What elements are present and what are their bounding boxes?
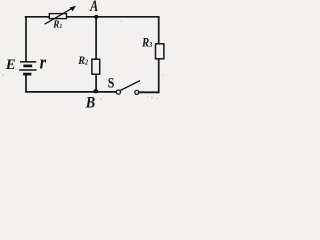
- svg-text:A: A: [89, 0, 98, 16]
- svg-text:r: r: [40, 52, 47, 73]
- wire right vertical: [158, 16, 160, 93]
- switch S blade: [121, 81, 141, 91]
- wire left top segment: [25, 16, 27, 62]
- node A junction dot: [94, 15, 98, 19]
- wire bottom right (switch to corner): [139, 91, 160, 93]
- wire middle branch lower (R2 to B): [95, 74, 97, 92]
- svg-text:E: E: [5, 57, 16, 73]
- rheostat R1 arrow: [45, 6, 76, 25]
- switch S right contact: [135, 90, 139, 94]
- wire middle branch upper (A to R2): [95, 17, 97, 60]
- switch S left contact: [116, 90, 120, 94]
- wire left bottom segment: [25, 74, 27, 92]
- resistor R3 body: [156, 44, 164, 59]
- resistor R2 body: [92, 59, 100, 74]
- svg-text:B: B: [85, 93, 95, 111]
- scan noise speckles: [2, 20, 163, 99]
- rheostat R1 body: [49, 14, 66, 19]
- wire top: [25, 16, 160, 18]
- node B junction dot: [93, 89, 98, 93]
- wire bottom left (B to switch): [25, 91, 116, 93]
- battery E r (cells): [19, 62, 36, 74]
- svg-text:S: S: [108, 75, 115, 91]
